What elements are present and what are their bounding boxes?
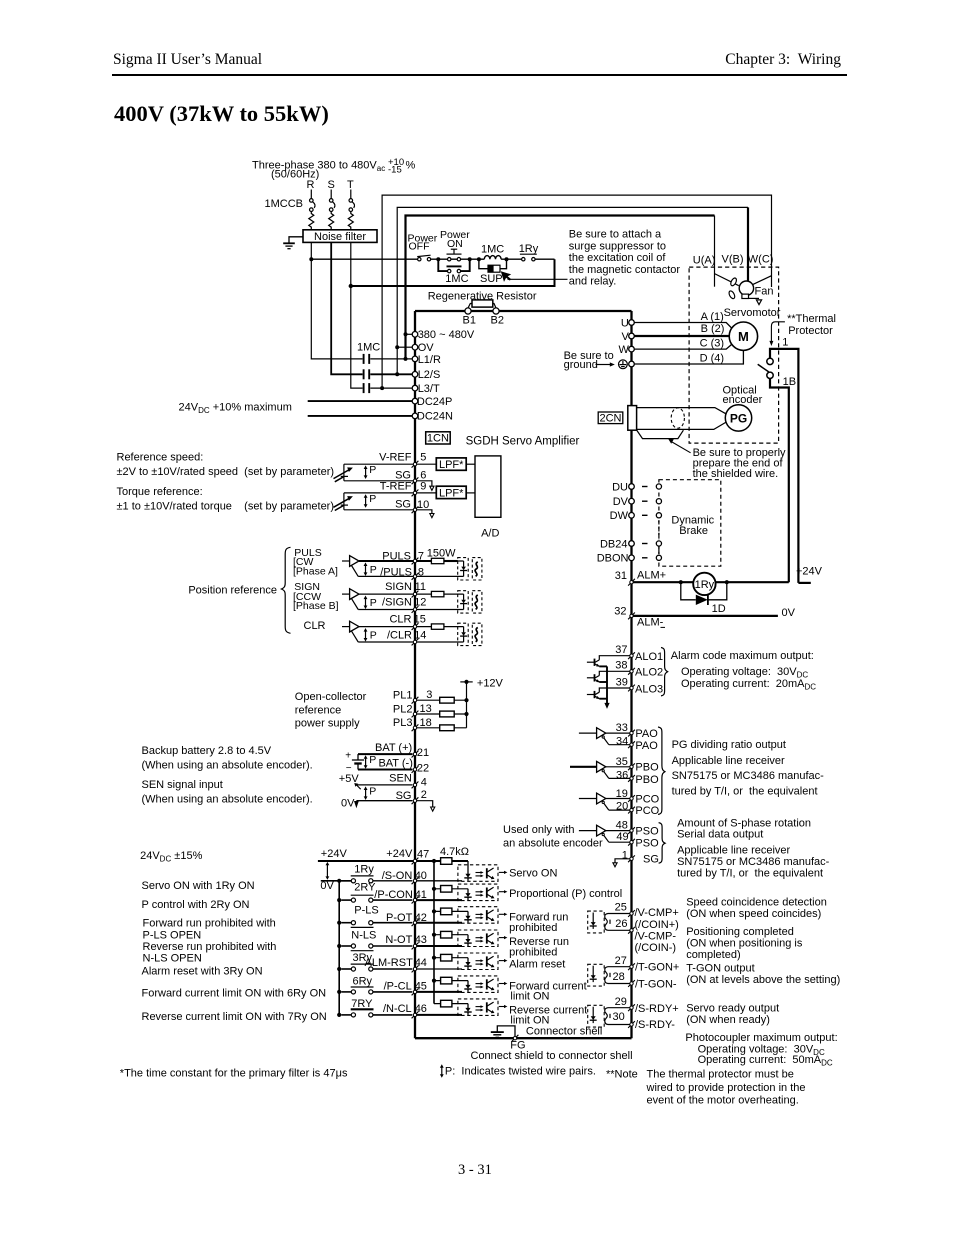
svg-text:Reverse run prohibited with: Reverse run prohibited with xyxy=(143,941,277,953)
svg-text:BAT (-): BAT (-) xyxy=(378,757,412,769)
encoder cable xyxy=(637,408,726,430)
svg-text:46: 46 xyxy=(415,1003,427,1015)
svg-text:the excitation coil of: the excitation coil of xyxy=(569,252,667,264)
svg-text:event of the motor overheating: event of the motor overheating. xyxy=(647,1095,799,1107)
N-LS switch row 43 xyxy=(341,944,412,948)
svg-text:36: 36 xyxy=(616,769,628,781)
+5V arrow xyxy=(356,785,360,789)
SG2 internal tie xyxy=(417,801,433,807)
wire: R column noise filter to L1/R xyxy=(311,242,362,359)
junction dots control xyxy=(436,257,508,261)
1MC coil xyxy=(484,256,501,260)
A/D box xyxy=(475,456,501,517)
fan blades xyxy=(730,277,738,287)
svg-text:N-LS OPEN: N-LS OPEN xyxy=(143,953,202,965)
svg-text:Reverse current limit ON with: Reverse current limit ON with 7Ry ON xyxy=(142,1011,327,1023)
svg-text:150W: 150W xyxy=(427,548,456,560)
optocoupler rows xyxy=(458,865,508,882)
svg-text:Fan: Fan xyxy=(755,285,774,297)
feed branches rows 41-46 xyxy=(434,889,468,1004)
svg-text:A (1): A (1) xyxy=(701,311,724,323)
wire V-REF xyxy=(344,463,436,465)
svg-text:(When using an absolute encode: (When using an absolute encoder). xyxy=(142,759,313,771)
svg-text:44: 44 xyxy=(415,957,427,969)
svg-text:U: U xyxy=(621,317,629,329)
svg-text:/S-RDY-: /S-RDY- xyxy=(635,1019,675,1031)
svg-text:SG: SG xyxy=(643,854,659,866)
svg-text:+24V: +24V xyxy=(386,848,413,860)
SEN wire xyxy=(356,784,412,786)
+12V junction dots xyxy=(464,680,468,684)
svg-text:Torque reference:: Torque reference: xyxy=(117,486,203,498)
svg-text:20: 20 xyxy=(616,801,628,813)
S-RDY output pair xyxy=(588,1005,630,1027)
svg-text:SN75175 or MC3486 manufac-: SN75175 or MC3486 manufac- xyxy=(677,856,830,868)
control return wire to T xyxy=(351,259,555,286)
svg-text:Applicable line receiver: Applicable line receiver xyxy=(677,845,790,857)
svg-text:PBO: PBO xyxy=(635,774,659,786)
svg-text:7: 7 xyxy=(418,550,424,562)
1Ry relay coil xyxy=(693,573,715,595)
svg-text:37: 37 xyxy=(615,644,627,656)
svg-text:Noise filter: Noise filter xyxy=(314,231,366,243)
page number footer xyxy=(458,1162,492,1179)
1Ry switch row 40 xyxy=(341,876,412,883)
svg-text:/P-CON: /P-CON xyxy=(374,889,413,901)
fan feed wire middle (to L2/S) xyxy=(397,207,748,374)
svg-text:PG: PG xyxy=(730,411,747,425)
junction 380-480V tap xyxy=(404,332,408,336)
wire: L3/T after 1MC contact xyxy=(370,387,412,389)
3Ry switch row 44 xyxy=(341,967,412,971)
motor circle M xyxy=(729,322,757,350)
svg-text:LPF*: LPF* xyxy=(439,459,464,471)
svg-text:(/COIN-): (/COIN-) xyxy=(635,942,677,954)
svg-text:/V-CMP-: /V-CMP- xyxy=(635,930,677,942)
svg-text:1MC: 1MC xyxy=(481,244,504,256)
svg-text:Connect shield to connector sh: Connect shield to connector shell xyxy=(471,1050,633,1062)
thermal wire 1 to +24V xyxy=(770,349,798,583)
pins 3 13 18 xyxy=(412,697,419,704)
battery wires BAT+ BAT- xyxy=(358,753,413,755)
wire: T column noise filter to L3/T xyxy=(351,242,363,388)
svg-text:Servomotor: Servomotor xyxy=(724,307,781,319)
svg-text:/T-GON-: /T-GON- xyxy=(635,978,677,990)
main terminals on left edge xyxy=(412,332,418,338)
power ON pushbutton xyxy=(447,249,462,261)
svg-text:+24V: +24V xyxy=(796,566,823,578)
junction control return T xyxy=(349,284,353,288)
CLR pair xyxy=(342,621,482,645)
2CN connector rect xyxy=(628,406,637,431)
T-GON output pair xyxy=(588,964,630,986)
svg-text:ALO1: ALO1 xyxy=(635,651,663,663)
6Ry switch row 45 xyxy=(341,990,412,994)
svg-text:Brake: Brake xyxy=(679,525,708,537)
wire: DC24P xyxy=(308,400,413,402)
svg-text:+12V: +12V xyxy=(477,678,504,690)
svg-text:Servo ready output: Servo ready output xyxy=(686,1003,779,1015)
svg-text:tured by T/I, or the equivale: tured by T/I, or the equivalent xyxy=(677,868,823,880)
svg-text:Reference speed:: Reference speed: xyxy=(117,452,204,464)
motor wire D ground xyxy=(634,351,743,365)
FG pin and ground xyxy=(512,1035,519,1042)
svg-text:D (4): D (4) xyxy=(700,352,724,364)
svg-text:Operating current: 50mADC: Operating current: 50mADC xyxy=(698,1054,833,1068)
svg-text:ground: ground xyxy=(564,359,598,371)
svg-text:28: 28 xyxy=(613,971,625,983)
svg-text:41: 41 xyxy=(415,889,427,901)
svg-text:CLR: CLR xyxy=(389,613,411,625)
svg-text:5: 5 xyxy=(420,451,426,463)
svg-text:29: 29 xyxy=(615,996,627,1008)
wire: S column noise filter to L2/S xyxy=(331,242,362,374)
open collector wires PL1 PL2 PL3 xyxy=(417,682,473,728)
SG pin 1 tie xyxy=(615,859,630,863)
svg-text:2CN: 2CN xyxy=(599,412,621,424)
DB24 DBON terminals xyxy=(629,541,635,547)
svg-text:OV: OV xyxy=(418,342,435,354)
1CN label box xyxy=(426,432,451,444)
PBO line driver xyxy=(579,761,630,778)
svg-text:(/COIN+): (/COIN+) xyxy=(635,919,679,931)
svg-text:prohibited: prohibited xyxy=(509,946,557,958)
1MC main contact bars L2/S xyxy=(363,369,365,379)
svg-text:Proportional (P) control: Proportional (P) control xyxy=(509,888,622,900)
junction OV tap xyxy=(395,345,399,349)
svg-text:Alarm code maximum output:: Alarm code maximum output: xyxy=(671,650,814,662)
svg-text:DC24N: DC24N xyxy=(417,411,453,423)
svg-text:P: P xyxy=(369,754,376,766)
svg-text:34: 34 xyxy=(616,736,628,748)
svg-text:ALO2: ALO2 xyxy=(635,667,663,679)
P legend arrow xyxy=(440,1064,444,1078)
torque source arrow xyxy=(334,498,350,510)
junction L2/S fan tap xyxy=(395,372,399,376)
motor wire W xyxy=(634,345,731,350)
ground symbol at W terminal xyxy=(619,360,628,369)
svg-text:Position reference: Position reference xyxy=(188,585,277,597)
control circuit main wire xyxy=(311,258,554,260)
ALO2 transistor xyxy=(587,671,630,682)
P arrow SEN xyxy=(364,786,368,800)
svg-text:/S-ON: /S-ON xyxy=(382,870,413,882)
svg-text:4.7kΩ: 4.7kΩ xyxy=(440,846,469,858)
svg-text:19: 19 xyxy=(616,788,628,800)
pins 21 22 4 2 xyxy=(412,751,419,758)
svg-text:M: M xyxy=(738,329,749,344)
1MC main contact bars L1/R xyxy=(364,354,370,393)
0V rail dots xyxy=(337,879,341,1017)
svg-text:SUP: SUP xyxy=(480,273,503,285)
ALM- wire to 0V xyxy=(633,615,778,617)
svg-text:P: P xyxy=(370,597,377,609)
svg-text:DV: DV xyxy=(613,496,629,508)
svg-text:T-GON output: T-GON output xyxy=(686,963,754,975)
svg-text:A/D: A/D xyxy=(481,527,499,539)
svg-text:11: 11 xyxy=(415,581,426,593)
shield callout arrow xyxy=(672,442,691,453)
svg-text:surge suppressor to: surge suppressor to xyxy=(569,240,666,252)
svg-text:Used only with: Used only with xyxy=(503,824,575,836)
svg-text:P: P xyxy=(369,464,376,476)
svg-text:an absolute encoder: an absolute encoder xyxy=(503,838,603,850)
svg-text:PSO: PSO xyxy=(635,825,659,837)
svg-text:Serial data output: Serial data output xyxy=(677,829,763,841)
ALO3 transistor xyxy=(587,688,630,699)
row40 feed drop xyxy=(467,861,469,870)
svg-text:32: 32 xyxy=(614,606,626,618)
svg-text:Alarm reset: Alarm reset xyxy=(509,958,565,970)
wire: L2/S after 1MC contact xyxy=(370,373,412,375)
svg-text:PG dividing ratio output: PG dividing ratio output xyxy=(672,739,786,751)
svg-text:(ON when ready): (ON when ready) xyxy=(686,1014,770,1026)
svg-text:21: 21 xyxy=(417,747,429,759)
input row wires to pins xyxy=(417,881,463,1015)
+12V rail xyxy=(466,682,468,728)
svg-text:OFF: OFF xyxy=(409,240,430,252)
svg-text:10: 10 xyxy=(417,499,429,511)
svg-text:limit ON: limit ON xyxy=(510,991,549,1003)
svg-text:1MC: 1MC xyxy=(357,342,380,354)
svg-text:45: 45 xyxy=(415,980,427,992)
svg-text:completed): completed) xyxy=(686,949,740,961)
noise filter box xyxy=(303,230,377,243)
svg-text:Operating current: 20mADC: Operating current: 20mADC xyxy=(681,678,816,692)
svg-text:/P-CL: /P-CL xyxy=(384,980,412,992)
0V rail vertical xyxy=(338,881,340,1015)
fan circle xyxy=(739,281,753,295)
regenerative resistor symbol xyxy=(468,300,496,308)
PSO line driver xyxy=(579,825,630,842)
svg-text:R: R xyxy=(307,179,315,191)
svg-text:T: T xyxy=(347,179,354,191)
DU DV DW terminals xyxy=(629,484,635,490)
wire: L1/R after 1MC contact xyxy=(370,358,412,360)
svg-text:Photocoupler maximum output:: Photocoupler maximum output: xyxy=(685,1032,837,1044)
svg-text:B (2): B (2) xyxy=(701,323,725,335)
svg-text:W: W xyxy=(619,344,630,356)
svg-text:tured by T/I, or the equivale: tured by T/I, or the equivalent xyxy=(672,786,818,798)
amplifier right edge upper xyxy=(630,311,632,406)
svg-text:PL2: PL2 xyxy=(393,703,413,715)
svg-text:6Ry: 6Ry xyxy=(353,975,373,987)
junction L3/T fan tap xyxy=(380,386,384,390)
svg-text:Be sure to attach a: Be sure to attach a xyxy=(569,229,662,241)
amplifier left edge 1CN line xyxy=(414,311,416,1038)
svg-text:BAT (+): BAT (+) xyxy=(375,742,412,754)
SUP callout line to note xyxy=(508,278,568,280)
svg-text:(ON at levels above the settin: (ON at levels above the setting) xyxy=(686,974,840,986)
ALO1 transistor xyxy=(587,656,630,667)
svg-text:49: 49 xyxy=(616,831,628,843)
svg-text:SN75175 or MC3486 manufac-: SN75175 or MC3486 manufac- xyxy=(672,770,825,782)
SUP surge suppressor branch xyxy=(479,259,507,269)
svg-text:/PULS: /PULS xyxy=(380,567,412,579)
svg-text:38: 38 xyxy=(615,660,627,672)
svg-text:N-LS: N-LS xyxy=(351,930,376,942)
svg-text:PBO: PBO xyxy=(635,762,659,774)
svg-text:/T-GON+: /T-GON+ xyxy=(635,961,679,973)
svg-text:PSO: PSO xyxy=(635,838,659,850)
svg-text:V(B): V(B) xyxy=(722,254,744,266)
svg-text:26: 26 xyxy=(615,918,627,930)
svg-text:43: 43 xyxy=(415,934,427,946)
svg-text:N-OT: N-OT xyxy=(385,934,412,946)
P arrow battery xyxy=(364,755,368,769)
svg-text:22: 22 xyxy=(417,762,429,774)
svg-text:CLR: CLR xyxy=(304,620,326,632)
svg-text:Connector shell: Connector shell xyxy=(526,1025,602,1037)
fan feed wire outer (to L3/T) xyxy=(382,195,771,388)
svg-text:Protector: Protector xyxy=(788,325,833,337)
svg-text:Forward current limit ON with: Forward current limit ON with 6Ry ON xyxy=(142,988,327,1000)
svg-text:PL1: PL1 xyxy=(393,690,413,702)
PULS thick overlay xyxy=(359,560,431,562)
thermal protector contact xyxy=(758,358,774,378)
+24V supply tick xyxy=(798,582,810,584)
svg-text:PAO: PAO xyxy=(635,728,658,740)
svg-text:prohibited: prohibited xyxy=(509,922,557,934)
svg-text:/SIGN: /SIGN xyxy=(382,597,412,609)
PBO thick input overlay xyxy=(570,766,597,768)
svg-text:PCO: PCO xyxy=(635,793,659,805)
svg-text:*The time constant for the pri: *The time constant for the primary filte… xyxy=(120,1068,348,1080)
breaker S xyxy=(330,190,332,199)
0V arrow xyxy=(354,801,359,808)
svg-text:Servo ON: Servo ON xyxy=(509,867,557,879)
svg-text:B2: B2 xyxy=(491,314,504,326)
svg-text:Speed coincidence detection: Speed coincidence detection xyxy=(686,897,827,909)
svg-text:Forward run prohibited with: Forward run prohibited with xyxy=(143,918,276,930)
pair end bar xyxy=(343,464,345,481)
PULS pair xyxy=(342,556,482,580)
noise filter ground xyxy=(283,237,303,249)
pins 5 6 9 10 xyxy=(412,461,419,468)
svg-text:SGDH Servo Amplifier: SGDH Servo Amplifier xyxy=(466,436,580,448)
pair end bar 2 xyxy=(343,493,345,510)
svg-text:/S-RDY+: /S-RDY+ xyxy=(635,1003,679,1015)
svg-text:DC24P: DC24P xyxy=(417,396,452,408)
ALO brace xyxy=(661,648,668,696)
svg-text:The thermal protector must be: The thermal protector must be xyxy=(647,1069,794,1081)
svg-text:Applicable line receiver: Applicable line receiver xyxy=(672,755,785,767)
svg-text:ALM-RST: ALM-RST xyxy=(365,957,414,969)
surge suppressor note text xyxy=(569,229,681,288)
svg-text:power supply: power supply xyxy=(295,718,360,730)
wire: DC24N xyxy=(308,415,413,417)
7RY switch row 46 xyxy=(341,1013,412,1017)
svg-text:9: 9 xyxy=(420,480,426,492)
junction control phase R xyxy=(309,257,313,261)
ALO common rail xyxy=(606,666,608,703)
svg-text:PULS: PULS xyxy=(382,550,411,562)
brake contact circles xyxy=(656,484,661,561)
wire: OV tap xyxy=(397,346,412,348)
pins 37 38 39 xyxy=(628,652,635,659)
thermal protector labels xyxy=(782,313,836,578)
servomotor dashed box xyxy=(689,267,779,443)
svg-text:±2V to ±10V/rated speed (set: ±2V to ±10V/rated speed (set by paramete… xyxy=(117,466,335,478)
speed source arrow xyxy=(334,470,350,482)
svg-text:encoder: encoder xyxy=(723,394,763,406)
position reference brace xyxy=(281,547,290,633)
svg-text:the magnetic contactor: the magnetic contactor xyxy=(569,264,681,276)
svg-text:380 ~ 480V: 380 ~ 480V xyxy=(418,329,475,341)
svg-text:[Phase A]: [Phase A] xyxy=(293,565,338,577)
svg-text:DB24: DB24 xyxy=(600,538,628,550)
shield note text xyxy=(693,447,786,480)
1MC main contact bars L3/T xyxy=(363,383,365,393)
svg-text:1MCCB: 1MCCB xyxy=(265,198,304,210)
svg-text:1Ry: 1Ry xyxy=(695,579,715,591)
svg-text:2: 2 xyxy=(421,789,427,801)
amplifier bottom edge xyxy=(415,1037,632,1039)
PAO line driver xyxy=(579,728,630,745)
svg-text:0V: 0V xyxy=(782,607,796,619)
amplifier top edge xyxy=(415,310,632,312)
svg-text:13: 13 xyxy=(420,703,432,715)
U V W ground terminals right edge xyxy=(629,320,635,326)
svg-text:%: % xyxy=(406,159,416,171)
motor wire V thick xyxy=(634,335,729,337)
2CN label box xyxy=(598,412,623,424)
4.7k feed rail xyxy=(433,861,435,1004)
shield clamp trapezoid xyxy=(637,430,684,439)
1D diode branch xyxy=(681,582,727,600)
svg-text:(ON when positioning is: (ON when positioning is xyxy=(686,937,803,949)
svg-text:33: 33 xyxy=(616,722,628,734)
svg-text:V-REF: V-REF xyxy=(379,451,412,463)
svg-text:L1/R: L1/R xyxy=(418,354,441,366)
svg-text:14: 14 xyxy=(414,630,426,642)
svg-text:+5V: +5V xyxy=(339,773,360,785)
thermal wire 1B to ALM circuit xyxy=(770,379,789,583)
svg-text:P-LS OPEN: P-LS OPEN xyxy=(143,929,202,941)
svg-text:P: P xyxy=(369,493,376,505)
svg-text:P: P xyxy=(369,785,376,797)
svg-text:+24V: +24V xyxy=(321,848,348,860)
svg-text:+: + xyxy=(345,751,351,762)
wire T-REF xyxy=(344,492,436,494)
svg-text:P control with 2Ry ON: P control with 2Ry ON xyxy=(142,899,250,911)
svg-text:V: V xyxy=(622,331,630,343)
svg-text:SIGN: SIGN xyxy=(385,581,412,593)
SG wire xyxy=(356,800,412,802)
LPF box 1 xyxy=(436,458,466,470)
PG output brace xyxy=(658,727,665,814)
svg-text:31: 31 xyxy=(615,570,627,582)
P-LS switch row 42 xyxy=(341,921,412,925)
4.7k resistor row40 xyxy=(441,858,452,865)
svg-text:47: 47 xyxy=(417,848,429,860)
svg-text:18: 18 xyxy=(420,717,432,729)
page title xyxy=(114,101,329,127)
speed reference pair wires xyxy=(344,464,475,513)
svg-text:15: 15 xyxy=(414,613,426,625)
svg-text:3: 3 xyxy=(426,689,432,701)
+24V input wire xyxy=(318,860,468,862)
svg-text:SEN: SEN xyxy=(389,772,412,784)
battery symbol xyxy=(352,754,364,769)
svg-text:P-OT: P-OT xyxy=(386,912,413,924)
branch resistors rows 41-46 xyxy=(441,886,452,893)
svg-text:Backup battery 2.8 to 4.5V: Backup battery 2.8 to 4.5V xyxy=(142,745,272,757)
svg-text:B1: B1 xyxy=(463,314,476,326)
1MC holding contact branch xyxy=(438,259,469,271)
amplifier right edge lower xyxy=(630,430,632,1038)
svg-text:Positioning completed: Positioning completed xyxy=(686,926,794,938)
